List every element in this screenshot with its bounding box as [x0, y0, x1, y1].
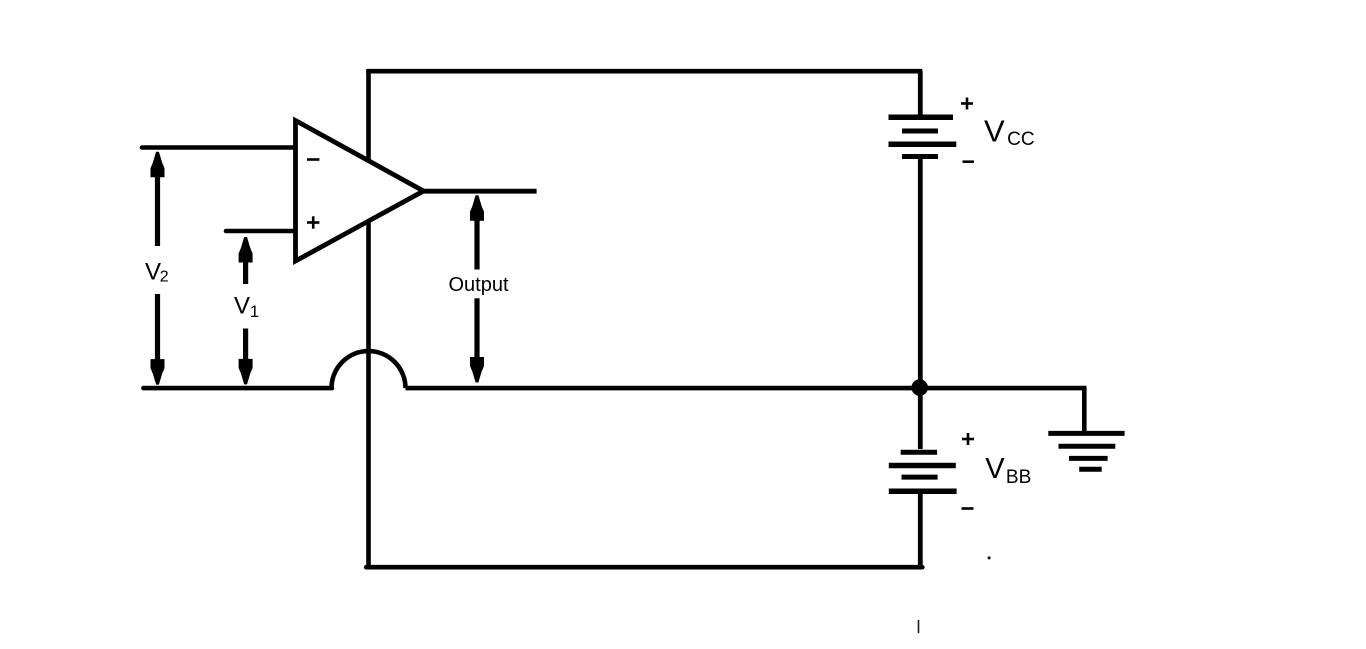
svg-text:CC: CC	[1007, 129, 1034, 150]
svg-text:1: 1	[250, 302, 259, 321]
svg-text:V: V	[234, 292, 250, 319]
svg-text:BB: BB	[1006, 467, 1031, 488]
svg-text:V: V	[985, 453, 1005, 485]
svg-text:V: V	[984, 113, 1005, 148]
svg-text:Output: Output	[449, 274, 509, 296]
svg-text:2: 2	[160, 269, 169, 286]
svg-text:V: V	[145, 258, 161, 285]
